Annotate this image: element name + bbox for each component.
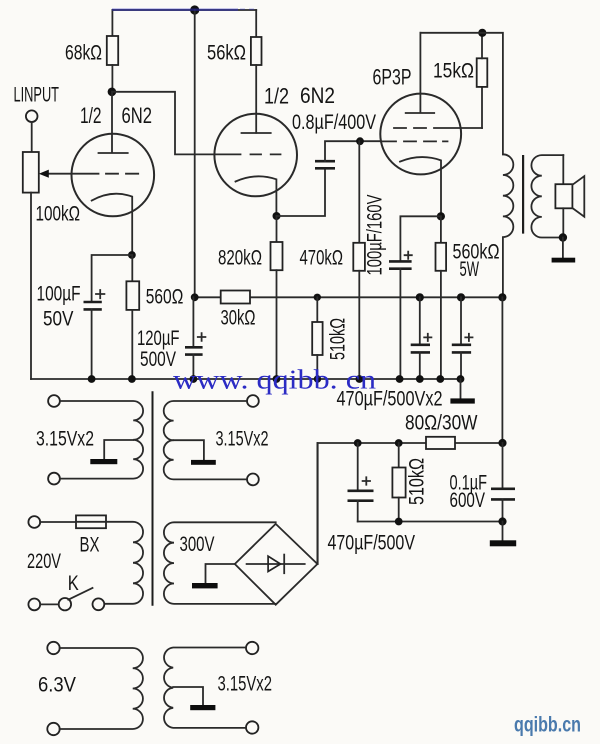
svg-text:5W: 5W bbox=[460, 258, 480, 281]
svg-text:3.15Vx2: 3.15Vx2 bbox=[36, 428, 94, 451]
resistor R 560k 5W cathode bbox=[440, 216, 442, 243]
wire cathode to bypass cap bbox=[400, 216, 441, 261]
svg-text:510kΩ: 510kΩ bbox=[327, 318, 350, 360]
wire B+ riser to mid bus bbox=[194, 10, 196, 297]
tube V3 cathode bbox=[400, 157, 441, 216]
svg-text:300V: 300V bbox=[180, 533, 215, 556]
svg-text:www. qqibb. cn: www. qqibb. cn bbox=[173, 365, 377, 395]
node bus1 cap1 bbox=[416, 293, 424, 301]
resistor R 560R (cathode stage1) bbox=[131, 255, 133, 281]
capacitor C 100uF/160V bbox=[389, 261, 412, 268]
tube V2 anode bbox=[242, 132, 271, 134]
resistor R 510k bleeder1 bbox=[316, 297, 318, 322]
tube V2 1/2 6N2 envelope bbox=[214, 114, 297, 197]
wire bridge to B+ row bbox=[316, 443, 318, 564]
inductor 6.3V winding bbox=[60, 648, 143, 729]
svg-text:K: K bbox=[68, 572, 79, 595]
resistor R 510k bleeder2 bbox=[398, 443, 400, 468]
node heater R terminals bbox=[247, 395, 259, 407]
svg-text:560Ω: 560Ω bbox=[146, 286, 184, 309]
ground bottom winding tap bbox=[173, 687, 203, 705]
svg-text:100kΩ: 100kΩ bbox=[36, 203, 81, 226]
node stage1 plate bbox=[108, 88, 117, 97]
node row dots bbox=[354, 439, 362, 447]
capacitor C 0.8uF/400V coupling bbox=[315, 161, 335, 168]
wire input to pot bbox=[31, 122, 33, 152]
resistor R 470k grid leak bbox=[358, 141, 360, 243]
wire cathode to coupling cap bbox=[277, 168, 326, 216]
ground heater R tap bbox=[174, 440, 204, 460]
inductor 3.15Vx2 bottom winding bbox=[164, 648, 246, 728]
diode inside bridge bbox=[247, 563, 305, 565]
switch K bbox=[28, 599, 40, 611]
wire rectifier output row bbox=[318, 443, 503, 564]
svg-text:120µF: 120µF bbox=[137, 327, 180, 350]
svg-text:3.15Vx2: 3.15Vx2 bbox=[218, 673, 273, 696]
tube V3 screen grid bbox=[394, 127, 482, 129]
node screen feed bbox=[478, 29, 486, 37]
svg-text:56kΩ: 56kΩ bbox=[207, 42, 246, 65]
svg-text:30kΩ: 30kΩ bbox=[221, 307, 256, 330]
node stage1 cathode bbox=[128, 251, 136, 259]
svg-text:100µF: 100µF bbox=[37, 283, 81, 306]
svg-text:qqibb.cn: qqibb.cn bbox=[514, 714, 581, 737]
wire ground bus bbox=[31, 378, 461, 380]
tube V1 cathode bbox=[92, 194, 133, 255]
node top-rail junction bbox=[190, 5, 199, 14]
svg-text:470kΩ: 470kΩ bbox=[300, 247, 344, 270]
svg-text:1/2: 1/2 bbox=[264, 84, 289, 109]
wire mid B+ bus bbox=[195, 296, 503, 298]
resistor R 15k screen bbox=[481, 87, 483, 128]
wire pot bottom to ground bus bbox=[30, 193, 32, 379]
node mains terminal bbox=[28, 516, 40, 528]
resistor R 68k (plate load stage1) bbox=[111, 10, 113, 36]
resistor R 30k filter bbox=[221, 291, 250, 304]
wire anode top to OPT bbox=[420, 33, 503, 155]
svg-text:6N2: 6N2 bbox=[300, 83, 335, 108]
ground main bbox=[460, 379, 462, 398]
inductor OPT secondary bbox=[531, 155, 563, 237]
node bus1 510k bbox=[314, 294, 321, 301]
capacitor C 470uF/500V b bbox=[460, 297, 462, 344]
op-amp/tube V1 1/2 6N2 envelope bbox=[72, 134, 155, 217]
resistor R 56k (plate load stage2) bbox=[255, 10, 257, 37]
wire stage1 plate to stage2 grid bbox=[112, 92, 241, 155]
capacitor C 100uF/50V bbox=[84, 302, 102, 309]
svg-text:BX: BX bbox=[80, 534, 100, 557]
OPT core bbox=[522, 155, 524, 234]
node speaker return bbox=[559, 233, 567, 241]
node bus1 cap2 bbox=[457, 293, 465, 301]
svg-text:LINPUT: LINPUT bbox=[14, 84, 60, 107]
node LINPUT terminal bbox=[26, 110, 38, 122]
svg-text:6P3P: 6P3P bbox=[373, 65, 412, 90]
node stage2 cathode bbox=[273, 212, 281, 220]
svg-text:470µF/500V: 470µF/500V bbox=[328, 532, 416, 555]
capacitor C 120uF/500V bbox=[192, 297, 194, 347]
svg-text:500V: 500V bbox=[140, 348, 176, 371]
tube V2 grid dashes bbox=[251, 153, 281, 155]
svg-text:80Ω/30W: 80Ω/30W bbox=[405, 412, 478, 435]
node V3 grid bbox=[356, 137, 364, 145]
inductor OPT primary bbox=[503, 154, 513, 297]
svg-text:15kΩ: 15kΩ bbox=[433, 60, 474, 83]
capacitor C 470uF/500V a bbox=[419, 297, 421, 344]
tube V1 grid dashes bbox=[106, 173, 138, 175]
tube V3 control grid dashes bbox=[381, 140, 448, 142]
node bus1 left bbox=[191, 293, 199, 301]
svg-text:220V: 220V bbox=[27, 550, 61, 573]
ground B+ filter bbox=[502, 522, 504, 541]
node gbus dots bbox=[88, 375, 96, 383]
svg-text:68kΩ: 68kΩ bbox=[65, 42, 102, 65]
inductor heater winding R 3.15Vx2 bbox=[164, 401, 247, 479]
node 6.3V terminals bbox=[47, 642, 59, 654]
svg-text:510kΩ: 510kΩ bbox=[406, 458, 429, 505]
ground heater L tap bbox=[104, 440, 133, 459]
node 3.15Vx2 bottom terminals bbox=[246, 642, 258, 654]
wire B+ right riser bbox=[501, 297, 503, 443]
ground bridge AC bbox=[206, 564, 235, 583]
fuse BX bbox=[40, 521, 76, 523]
tube V3 anode bbox=[406, 33, 435, 113]
resistor R 80R/30W bbox=[426, 437, 455, 449]
inductor mains primary 220V bbox=[104, 522, 143, 604]
svg-text:6N2: 6N2 bbox=[122, 103, 153, 128]
wire cathode to bypass cap bbox=[92, 255, 132, 302]
ground speaker bbox=[562, 238, 564, 258]
watermark top remnant bbox=[112, 9, 238, 11]
svg-text:50V: 50V bbox=[43, 308, 74, 331]
node bus1 right bbox=[498, 293, 506, 301]
wire bottom return bbox=[358, 521, 503, 523]
svg-text:0.8µF/400V: 0.8µF/400V bbox=[292, 111, 376, 134]
svg-text:6.3V: 6.3V bbox=[38, 674, 76, 697]
inductor secondary 300V bbox=[164, 522, 276, 604]
svg-text:3.15Vx2: 3.15Vx2 bbox=[216, 428, 269, 451]
transformer T1 core bbox=[152, 391, 154, 606]
speaker bbox=[562, 155, 564, 184]
tube V1 anode bbox=[99, 92, 128, 153]
tube V2 cathode bbox=[236, 176, 277, 216]
potentiometer 100k bbox=[23, 152, 39, 193]
inductor heater winding L 3.15Vx2 bbox=[60, 401, 143, 479]
svg-text:100µF/160V: 100µF/160V bbox=[364, 195, 387, 276]
tube V3 6P3P envelope bbox=[380, 94, 461, 175]
node heater L terminals bbox=[48, 395, 60, 407]
svg-text:1/2: 1/2 bbox=[80, 103, 102, 128]
wire B+ top rail bbox=[112, 9, 256, 11]
capacitor C 470uF/500V main bbox=[357, 443, 359, 490]
svg-text:600V: 600V bbox=[450, 489, 486, 512]
bridge rectifier bbox=[235, 524, 318, 605]
capacitor C 0.1uF/600V bbox=[502, 443, 504, 489]
svg-text:820kΩ: 820kΩ bbox=[218, 247, 262, 270]
resistor R 820k bbox=[276, 216, 278, 242]
node V3 cathode bbox=[437, 212, 445, 220]
